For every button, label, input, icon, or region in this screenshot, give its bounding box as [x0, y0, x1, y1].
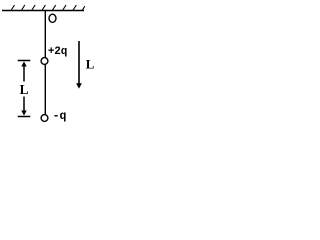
svg-text:L: L [86, 57, 95, 71]
dimension line lower segment [23, 97, 25, 114]
length arrow head [76, 83, 82, 88]
svg-text:+2q: +2q [48, 46, 67, 58]
charge -q circle [41, 115, 48, 122]
svg-text:L: L [20, 82, 29, 97]
wire string from O to -q charge [44, 11, 46, 115]
dimension bottom arrowhead [21, 111, 26, 116]
ceiling line [2, 10, 84, 12]
ceiling hatch marks [11, 5, 85, 11]
dimension top arrowhead [21, 62, 26, 67]
charge +2q circle [41, 58, 48, 65]
dimension bottom tick bar [18, 116, 31, 118]
node O label [49, 14, 56, 22]
dimension top tick bar [18, 60, 31, 62]
svg-text:-q: -q [53, 110, 67, 123]
length arrow L right side [78, 41, 80, 84]
dimension line upper segment [23, 64, 25, 82]
